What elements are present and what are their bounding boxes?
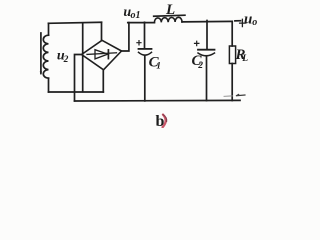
svg-text:2: 2 — [197, 61, 203, 71]
label close paren (red) — [163, 115, 166, 128]
wire transformer top lead — [48, 23, 50, 35]
wire C2 bottom stem — [206, 56, 208, 101]
diode D cathode bar — [107, 50, 109, 59]
svg-text:L: L — [165, 2, 175, 18]
diode D inside bridge: through line — [87, 53, 117, 55]
wire DC+ rail left segment — [128, 22, 155, 24]
stray scan mark near RL bottom — [224, 95, 233, 97]
wire apex drop — [101, 22, 103, 40]
plus sign polarity C1 — [137, 41, 141, 45]
capacitor C2 top plate — [198, 49, 215, 51]
wire C1 top stem — [144, 22, 146, 48]
plus sign polarity uo — [240, 19, 246, 26]
wire RL bottom lead — [231, 64, 233, 101]
diode D triangle — [95, 50, 108, 59]
wire left corner stub — [75, 55, 82, 101]
svg-text:u: u — [244, 12, 252, 28]
capacitor C2 curved plate — [198, 53, 215, 56]
transformer core bar — [40, 33, 42, 74]
transformer core arrow tip — [40, 72, 42, 75]
wire top rail from transformer to bridge apex — [49, 22, 102, 23]
inductor L winding — [154, 17, 182, 22]
wire C2 top stem — [206, 21, 208, 49]
wire bottom horizontal to bridge bottom corner — [49, 91, 104, 93]
wire DC+ rail right segment — [182, 20, 232, 23]
resistor RL box — [229, 46, 235, 64]
svg-text:o1: o1 — [131, 10, 141, 21]
wire RL top branch — [231, 21, 233, 46]
svg-text:2: 2 — [63, 55, 69, 65]
inductor L core bar — [154, 15, 185, 16]
plus sign polarity C2 — [195, 41, 199, 46]
wire C1 bottom stem — [144, 55, 146, 101]
transformer T1 secondary winding — [43, 35, 48, 78]
capacitor C1 curved plate — [139, 52, 152, 55]
svg-text:1: 1 — [156, 61, 161, 71]
capacitor C1 top plate — [139, 48, 152, 50]
wire bottom corner riser — [102, 70, 104, 92]
wire branch down through left corner — [82, 23, 84, 92]
wire right corner to DC+ rail — [122, 23, 129, 51]
svg-text:o: o — [252, 17, 257, 28]
wire transformer bottom lead — [48, 78, 50, 92]
wire bottom rail — [75, 99, 241, 102]
bridge rectifier diamond — [82, 40, 122, 70]
svg-text:L: L — [241, 54, 248, 64]
wire rail tick right of corner — [235, 20, 241, 22]
